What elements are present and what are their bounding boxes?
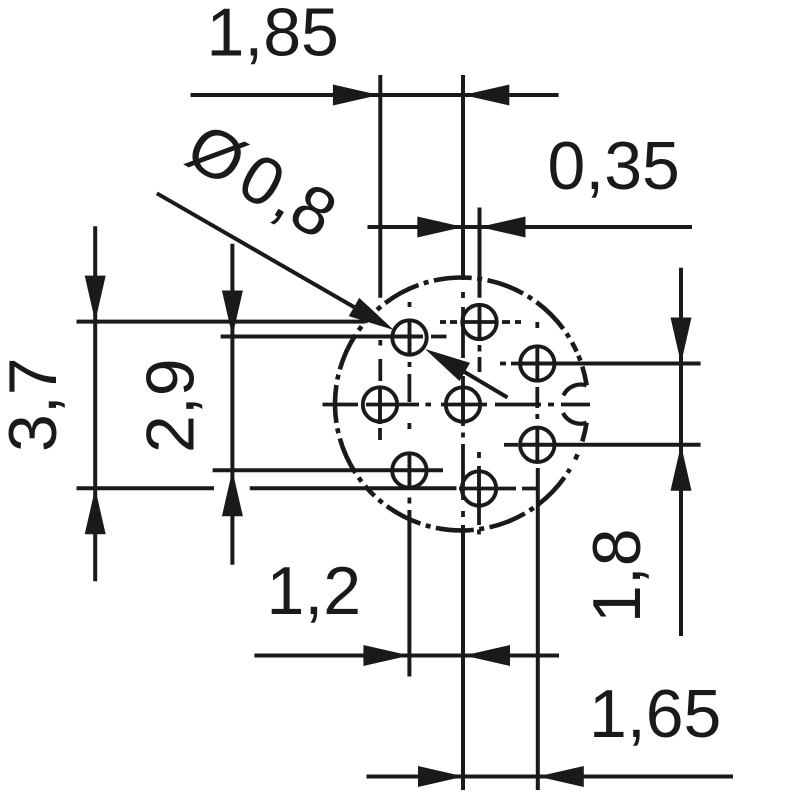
- dimension 2,9 arrow up: [222, 470, 243, 516]
- dimension 1,2 arrow right: [363, 645, 409, 666]
- horizontal line through right-lower pin y=444.8 (ext 1,8 bottom): [504, 443, 701, 447]
- dimension 3,7 line vertical: [93, 226, 97, 581]
- vertical line left pin column x=380: [378, 75, 382, 440]
- dimension 1,65 arrow right: [418, 766, 464, 787]
- connector outline circle top arc: [372, 277, 577, 351]
- pin right-upper circle: [520, 346, 554, 380]
- dimension 1,2 arrow left: [464, 645, 510, 666]
- horizontal centerline through top pin y=322: [440, 320, 521, 324]
- circle dot above notch: [578, 356, 580, 361]
- svg-text:3,7: 3,7: [0, 357, 71, 452]
- svg-text:2,9: 2,9: [132, 358, 208, 453]
- vertical centerline x=479 column (top / bottom pins): [477, 208, 482, 535]
- dimension 1,8 arrow down: [671, 318, 692, 364]
- extension 3,7 top: [77, 320, 366, 324]
- notch keyway arc lower: [563, 413, 587, 424]
- dimension 1,8 line vertical: [679, 268, 683, 636]
- vertical centerline x=537 column (right pins): [535, 322, 539, 790]
- dimension 2,9 line vertical: [230, 244, 234, 565]
- dimension 1,8 arrow up: [671, 445, 692, 491]
- svg-text:0,35: 0,35: [548, 128, 680, 204]
- dimension 1,85 arrow left: [463, 85, 509, 106]
- notch keyway upper circle segment: [582, 367, 586, 386]
- dimension 0,35 line: [368, 225, 693, 229]
- extension 3,7 bottom: [77, 486, 215, 490]
- dimension 1,85 line: [191, 93, 559, 97]
- leader arrow 2 (points back at pin from lower right): [425, 349, 470, 381]
- dimension 2,9 arrow down: [222, 291, 243, 337]
- pin bottom-left circle: [392, 453, 426, 487]
- svg-text:1,85: 1,85: [207, 0, 339, 71]
- connector outline circle left arc: [335, 315, 372, 494]
- dimension 0,35 arrow left: [480, 217, 526, 238]
- connector outline circle (dash-dot): [372, 469, 570, 530]
- leader line diameter 0,8: [157, 193, 365, 313]
- horizontal line through right-upper pin y=363.5 (ext 1,8 top): [500, 362, 701, 366]
- dimension 0,35 arrow right: [417, 217, 463, 238]
- pin right-lower circle: [520, 428, 554, 462]
- svg-text:1,65: 1,65: [589, 676, 721, 752]
- svg-text:Ø0,8: Ø0,8: [175, 109, 349, 254]
- horizontal centerline through bottom pin y=488.5: [459, 487, 539, 491]
- dimension 1,85 arrow right: [333, 85, 379, 106]
- pin left circle: [363, 387, 397, 421]
- dimension 1,65 line: [367, 775, 734, 779]
- leader arrow 1 (points at top-left pin): [349, 298, 394, 330]
- pin top-left circle: [392, 320, 426, 354]
- pin top circle: [462, 305, 496, 339]
- horizontal line through top-left pin y=337.5 (ext 2,9 top): [221, 335, 447, 339]
- dimension 3,7 arrow down: [85, 276, 106, 322]
- pin bottom circle: [462, 471, 496, 505]
- vertical centerline center column: [461, 75, 465, 790]
- vertical centerline x=409 column (top-left / bottom-left pins): [407, 302, 411, 677]
- horizontal centerline through left+center pins: [323, 403, 591, 407]
- notch keyway arc upper: [563, 384, 586, 395]
- circle dot below notch: [575, 454, 577, 459]
- dimension 1,2 line: [254, 654, 559, 658]
- leader tail: [462, 371, 508, 398]
- notch keyway lower circle segment: [582, 423, 586, 442]
- dimension 1,65 arrow left: [538, 766, 584, 787]
- svg-text:1,8: 1,8: [579, 528, 655, 623]
- pin internal crosses (vertical bars for pins on horizontal lines): [380, 306, 537, 506]
- horizontal line through bottom-left pin y=470.5 (ext 2,9 bottom): [213, 468, 443, 472]
- svg-text:1,2: 1,2: [267, 553, 362, 629]
- dimension 3,7 arrow up: [85, 488, 106, 534]
- pin center circle: [446, 387, 480, 421]
